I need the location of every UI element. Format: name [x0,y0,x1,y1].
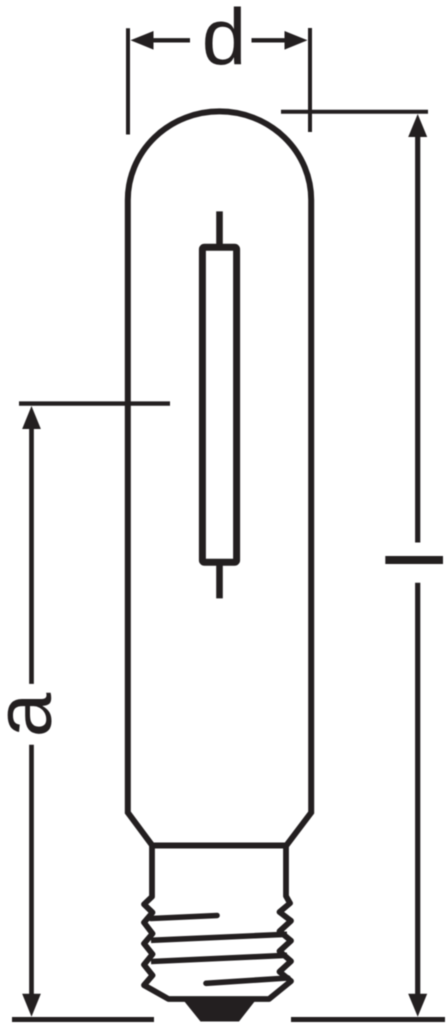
a-dimension top extension line [19,401,170,405]
l-dimension top extension line (bulb top level) [281,110,428,114]
a-dimension line lower segment [29,745,34,995]
inner arc tube (burner) [202,247,236,562]
thread line 4 [206,978,288,983]
lamp bulb outline (tube with dome top and neck taper) [128,111,311,845]
l-dimension bottom arrow [408,994,427,1017]
d-dimension right extension line [308,28,312,132]
screw base E40 cap outline with thread zigzag [144,846,291,1000]
l-dimension top arrow [408,114,427,137]
d-dimension line left segment [152,38,190,42]
bottom reference baseline right segment [291,1017,445,1022]
d-dimension left extension line [126,28,130,134]
l-dimension line lower segment [415,583,420,995]
d-dimension right arrow [285,31,308,50]
bottom reference baseline left segment [12,1017,154,1022]
d-dimension line right segment [252,38,287,42]
thread line 3 [151,955,287,961]
bottom lead wire [216,562,223,598]
top lead wire [216,211,223,247]
thread line 2 [151,934,287,940]
a-dimension bottom arrow [22,994,41,1017]
svg-text:d: d [202,0,247,82]
base contact tip (solder point) [184,1001,255,1022]
label l (rotated 90) [385,556,443,564]
d-dimension left arrow [131,31,154,50]
thread line 1 [151,916,217,919]
a-dimension line upper segment [29,428,34,684]
l-dimension line upper segment [415,135,420,543]
a-dimension top arrow [22,406,41,429]
svg-text:a: a [0,692,68,737]
